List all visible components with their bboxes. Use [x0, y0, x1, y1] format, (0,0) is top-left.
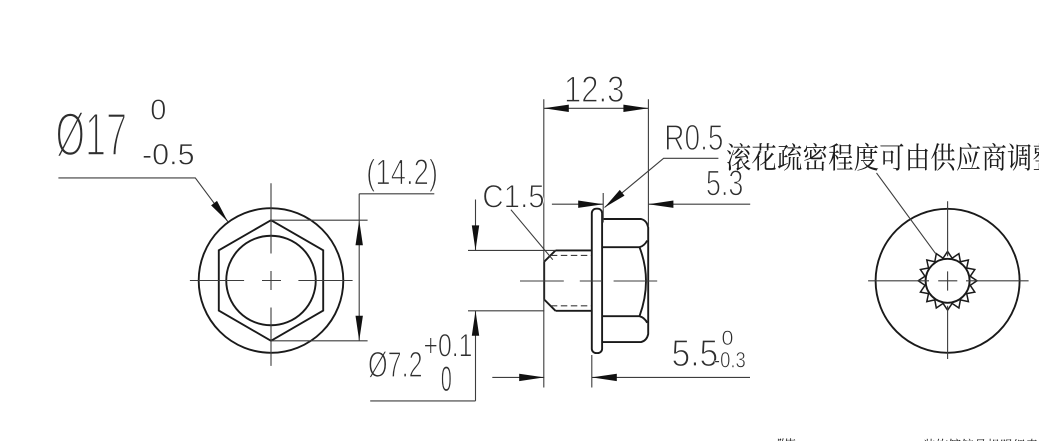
- svg-text:-0.5: -0.5: [142, 139, 195, 172]
- left view washer face inner circle: [226, 236, 316, 326]
- dimension (14.2) extension and dimension lines: [271, 194, 434, 341]
- svg-text:5.5: 5.5: [672, 332, 719, 374]
- svg-text:Ø7.2: Ø7.2: [368, 345, 423, 386]
- dimension R0.5 leader: [605, 158, 719, 207]
- note text: knurl density adjustable by supplier: [727, 143, 751, 171]
- dimension 5.3: [552, 193, 750, 223]
- svg-text:0: 0: [150, 95, 166, 127]
- dimension C1.5 leader: [511, 210, 553, 260]
- svg-text:Ø17: Ø17: [56, 100, 128, 168]
- dimension Ø7.2 +0.1/0: [370, 200, 475, 401]
- dimension 5.5 0/-0.3: [492, 355, 750, 388]
- middle view hex head side outline: [602, 219, 648, 342]
- right view inner circle: [926, 259, 970, 303]
- middle view hex head facet lines and chamfer arcs: [602, 241, 647, 323]
- middle view thread dashed lines: [551, 255, 592, 305]
- bottom edge clipped text fragment right: [924, 439, 935, 441]
- right view knurled ring (16-point star): [918, 251, 977, 310]
- bottom edge clipped text fragment left: [778, 438, 789, 441]
- svg-text:+0.1: +0.1: [424, 329, 473, 365]
- left view flange outer circle: [199, 208, 344, 353]
- svg-text:-0.3: -0.3: [714, 348, 746, 373]
- svg-text:R0.5: R0.5: [664, 117, 723, 157]
- left view hex head hexagon: [219, 220, 323, 341]
- middle view shank outline with chamfer: [544, 250, 592, 310]
- middle view flange (rounded rect): [592, 209, 602, 353]
- svg-text:12.3: 12.3: [564, 69, 624, 110]
- knurl note leader line: [877, 173, 936, 254]
- left view vertical centerline: [270, 183, 272, 366]
- right view horizontal centerline: [868, 280, 1029, 282]
- svg-text:C1.5: C1.5: [482, 178, 544, 214]
- svg-text:0: 0: [722, 326, 734, 350]
- left view horizontal centerline: [190, 280, 353, 282]
- dimension label Ø17 0/-0.5 leader: [58, 178, 227, 222]
- shank top and bottom extension lines: [468, 250, 556, 310]
- middle view horizontal centerline: [520, 280, 657, 282]
- right view vertical centerline: [947, 201, 949, 359]
- dimension 12.3: [544, 99, 649, 387]
- svg-text:(14.2): (14.2): [366, 152, 438, 192]
- right view outer circle: [876, 209, 1020, 353]
- svg-text:0: 0: [441, 360, 452, 400]
